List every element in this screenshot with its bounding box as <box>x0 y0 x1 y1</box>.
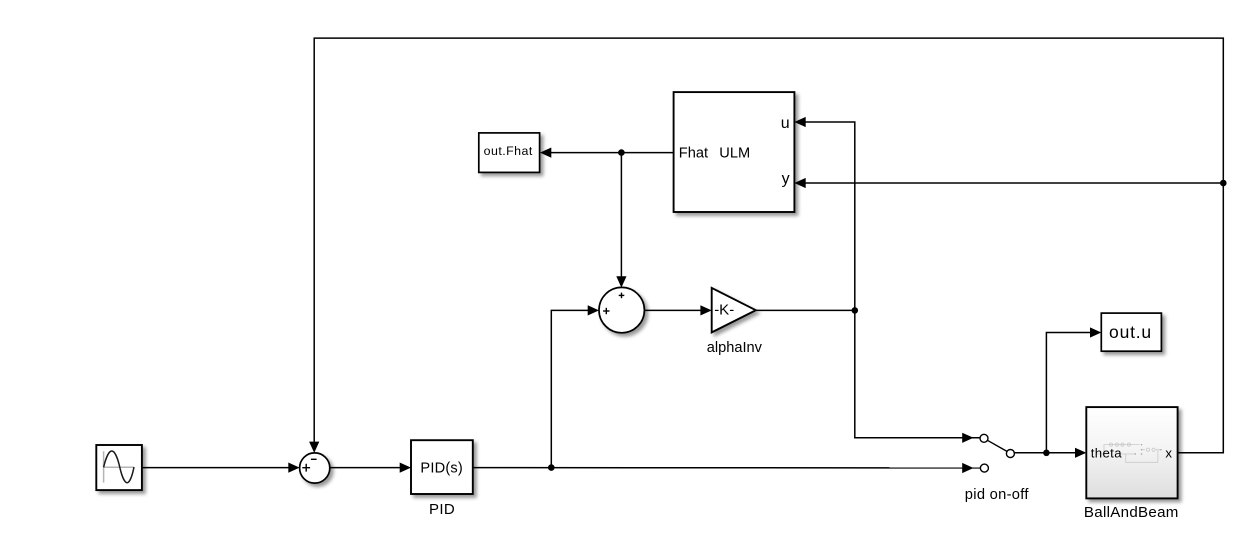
svg-text:u: u <box>781 115 790 132</box>
svg-text:pid on-off: pid on-off <box>965 487 1030 503</box>
svg-text:PID: PID <box>429 501 455 518</box>
svg-text:Fhat: Fhat <box>679 145 708 161</box>
svg-text:out.u: out.u <box>1109 322 1152 342</box>
svg-text:ULM: ULM <box>719 145 750 161</box>
svg-text:theta: theta <box>1091 446 1122 461</box>
svg-text:BallAndBeam: BallAndBeam <box>1084 504 1179 521</box>
svg-text:-K-: -K- <box>714 302 734 319</box>
svg-text:alphaInv: alphaInv <box>707 340 763 356</box>
svg-text:PID(s): PID(s) <box>420 460 463 476</box>
svg-text:y: y <box>782 171 790 188</box>
svg-text:out.Fhat: out.Fhat <box>484 144 533 158</box>
svg-text:x: x <box>1165 446 1172 461</box>
